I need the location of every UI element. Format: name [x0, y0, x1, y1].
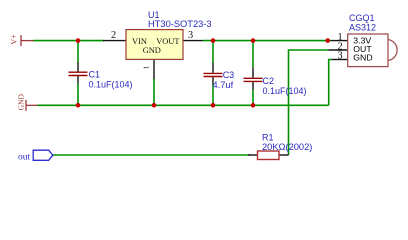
svg-text:C1: C1 — [89, 70, 101, 80]
svg-text:GND: GND — [143, 46, 161, 55]
svg-text:C3: C3 — [223, 70, 235, 80]
svg-text:0.1uF(104): 0.1uF(104) — [263, 86, 307, 96]
svg-text:VIN: VIN — [132, 37, 147, 46]
svg-text:GND: GND — [17, 93, 26, 110]
svg-text:20KΩ(2002): 20KΩ(2002) — [262, 142, 312, 152]
svg-text:HT30-SOT23-3: HT30-SOT23-3 — [148, 19, 212, 29]
svg-text:3: 3 — [188, 30, 193, 41]
svg-text:GND: GND — [353, 52, 372, 62]
svg-text:1: 1 — [142, 65, 151, 69]
svg-text:V+: V+ — [10, 34, 19, 45]
svg-text:out: out — [18, 153, 31, 163]
svg-text:3: 3 — [338, 50, 343, 61]
svg-text:AS312: AS312 — [349, 22, 376, 32]
svg-text:2: 2 — [111, 30, 116, 41]
svg-text:4.7uf: 4.7uf — [213, 80, 234, 90]
svg-text:C2: C2 — [263, 76, 275, 86]
svg-text:VOUT: VOUT — [156, 37, 179, 46]
svg-text:0.1uF(104): 0.1uF(104) — [89, 80, 133, 90]
